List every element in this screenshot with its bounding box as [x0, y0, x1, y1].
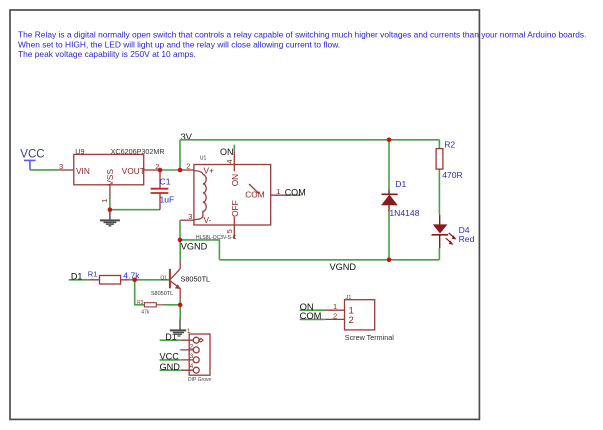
svg-text:U9: U9 — [75, 147, 84, 156]
wire bottom VGND rail — [219, 259, 439, 261]
svg-text:2: 2 — [186, 161, 190, 170]
svg-text:DIP Grove: DIP Grove — [188, 377, 211, 383]
wire R1 to base node — [129, 279, 135, 281]
junction base node — [132, 278, 137, 283]
svg-text:R2: R2 — [444, 140, 455, 150]
junction VSS/C1/gnd — [108, 207, 113, 212]
node VCC (grove pin3) — [160, 352, 181, 362]
svg-text:D1: D1 — [71, 272, 83, 282]
junction VGND/D1 — [387, 258, 392, 263]
svg-text:VSS: VSS — [105, 169, 115, 186]
svg-text:1: 1 — [333, 302, 337, 311]
svg-text:1: 1 — [187, 328, 191, 335]
capacitor C1 — [151, 171, 175, 210]
svg-text:1: 1 — [100, 199, 109, 203]
svg-text:ON: ON — [220, 147, 234, 157]
junction 3V corner — [178, 168, 183, 173]
wire R3 to emitter node — [164, 304, 181, 306]
svg-text:S8050TL: S8050TL — [151, 291, 173, 297]
svg-text:VCC: VCC — [160, 352, 180, 362]
supply VCC — [20, 148, 44, 170]
relay U1 HLS8L — [180, 152, 289, 241]
wire VGND to bottom rail — [180, 240, 219, 260]
junction emitter node — [178, 303, 183, 308]
svg-text:C1: C1 — [160, 177, 171, 187]
svg-text:COM: COM — [245, 190, 264, 200]
svg-text:470R: 470R — [442, 170, 463, 180]
svg-text:VCC: VCC — [20, 148, 44, 160]
svg-text:XC6206P302MR: XC6206P302MR — [111, 147, 165, 156]
node ON stub — [220, 145, 234, 158]
ground — [170, 319, 186, 336]
node ON stub (screw) — [300, 301, 326, 312]
wire base — [135, 279, 170, 281]
svg-text:ON: ON — [230, 174, 240, 186]
svg-text:V-: V- — [204, 215, 212, 225]
svg-text:3: 3 — [188, 212, 192, 221]
description text — [18, 30, 586, 59]
resistor R1 4.7k — [88, 270, 140, 284]
regulator U9 XC6206P302MR — [59, 147, 165, 203]
svg-text:2: 2 — [333, 311, 337, 320]
diode D1 1N4148 — [382, 140, 420, 260]
svg-text:VIN: VIN — [76, 166, 90, 176]
node D1 stub — [69, 272, 90, 282]
node COM stub — [285, 187, 306, 197]
svg-text:4: 4 — [225, 159, 234, 163]
connector J2 DIP Grove — [180, 328, 211, 383]
svg-text:VGND: VGND — [330, 262, 357, 272]
svg-text:VGND: VGND — [181, 242, 208, 252]
svg-text:Screw Terminal: Screw Terminal — [345, 333, 394, 342]
svg-text:Red: Red — [459, 234, 475, 244]
wire VCC to U9 VIN — [30, 169, 60, 171]
wire gnd to C1 bottom — [110, 209, 160, 211]
svg-text:3: 3 — [190, 353, 194, 360]
svg-text:OFF: OFF — [230, 200, 240, 217]
svg-text:5: 5 — [225, 229, 234, 233]
svg-text:When set to HIGH, the LED will: When set to HIGH, the LED will light up … — [18, 39, 340, 49]
svg-text:J1: J1 — [346, 295, 352, 301]
svg-text:1: 1 — [276, 187, 280, 196]
svg-text:The Relay is a digital normall: The Relay is a digital normally open swi… — [18, 30, 586, 40]
svg-text:V+: V+ — [204, 166, 215, 176]
svg-text:47k: 47k — [141, 309, 150, 315]
node D1 (grove pin1) — [160, 332, 181, 342]
junction VOUT/C1 — [158, 168, 163, 173]
svg-text:U1: U1 — [200, 156, 207, 162]
svg-text:3: 3 — [59, 162, 63, 171]
svg-text:COM: COM — [300, 310, 322, 321]
wire down to R3 — [135, 280, 144, 305]
node COM stub (screw) — [300, 310, 326, 321]
svg-text:1N4148: 1N4148 — [389, 208, 419, 218]
svg-text:GND: GND — [160, 362, 181, 372]
svg-text:D1: D1 — [165, 332, 176, 342]
svg-text:R3: R3 — [137, 300, 144, 306]
wire collector — [179, 240, 181, 261]
screw terminal J1 — [325, 295, 394, 342]
svg-text:COM: COM — [285, 187, 306, 197]
resistor R2 — [436, 140, 463, 215]
svg-text:S8050TL: S8050TL — [181, 274, 211, 283]
wire emitter to gnd — [179, 299, 181, 319]
node GND (grove pin4) — [160, 362, 181, 372]
svg-text:1uF: 1uF — [160, 194, 175, 204]
node VGND — [180, 220, 208, 251]
svg-text:2: 2 — [349, 315, 354, 326]
wire VSS down — [109, 199, 111, 210]
junction VGND relay — [178, 238, 183, 243]
svg-text:R1: R1 — [88, 270, 98, 279]
wire VOUT to 3V corner — [158, 169, 181, 171]
svg-text:D1: D1 — [395, 179, 406, 189]
resistor R3 47k — [137, 300, 164, 315]
svg-text:Q1: Q1 — [160, 275, 167, 281]
ground — [100, 210, 120, 226]
LED D4 — [432, 215, 475, 260]
junction 3V/D1 — [387, 138, 392, 143]
svg-text:The peak voltage capability is: The peak voltage capability is 250V at 1… — [18, 49, 196, 59]
svg-text:2: 2 — [190, 343, 194, 350]
svg-text:4: 4 — [190, 363, 194, 370]
transistor Q1 S8050TL — [151, 261, 210, 299]
svg-text:VOUT: VOUT — [122, 166, 145, 176]
wire 3V rail — [180, 139, 439, 141]
node 3V — [180, 132, 193, 170]
